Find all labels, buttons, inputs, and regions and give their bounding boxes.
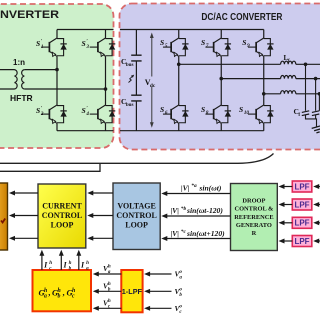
transformer HFTR 1:n xyxy=(0,70,15,89)
svg-text:S: S xyxy=(242,38,246,47)
svg-text:S: S xyxy=(36,106,40,115)
DC/DC H-bridge rails and legs xyxy=(57,30,114,131)
svg-text:o: o xyxy=(179,269,182,275)
svg-text:S: S xyxy=(201,38,205,47)
arrow Vco into 1-LPF xyxy=(149,307,171,309)
svg-text:sin(ωt): sin(ωt) xyxy=(198,183,222,192)
svg-text:LPF: LPF xyxy=(294,219,309,228)
1-LPF block xyxy=(121,270,142,312)
phase line b xyxy=(221,78,280,80)
svg-text:f: f xyxy=(298,112,300,118)
arrow LPF1 to droop xyxy=(284,186,293,188)
transistor S5 xyxy=(163,38,189,56)
svg-text:LPF: LPF xyxy=(294,200,309,209)
svg-text:a: a xyxy=(179,275,182,281)
svg-text:1: 1 xyxy=(41,44,44,50)
svg-text:a: a xyxy=(108,269,111,275)
arrow Ibh to current loop xyxy=(60,255,62,270)
svg-text:CONTROL: CONTROL xyxy=(116,211,156,220)
svg-text:sin(ωt-120): sin(ωt-120) xyxy=(186,206,223,215)
transistor S'1 xyxy=(41,38,67,56)
DC/DC converter box xyxy=(0,4,114,148)
svg-text:1-LPF: 1-LPF xyxy=(122,287,143,296)
svg-text:o: o xyxy=(179,287,182,293)
svg-text:,: , xyxy=(48,288,50,298)
svg-text:*b: *b xyxy=(181,205,187,212)
svg-text:S: S xyxy=(36,39,40,48)
transistor S7 xyxy=(205,38,231,56)
transistor S'4 xyxy=(90,105,116,123)
node: transformer bottom to right leg xyxy=(104,87,108,91)
arrow LPF2 to droop xyxy=(284,204,293,206)
svg-text:6: 6 xyxy=(165,110,168,116)
svg-text:c: c xyxy=(72,294,75,300)
svg-text:b: b xyxy=(69,266,72,272)
arrow current to PWM xyxy=(14,237,38,239)
capacitor Cbus (bottom) xyxy=(131,95,141,101)
svg-text:h: h xyxy=(86,260,89,266)
LPF block 4 xyxy=(292,236,312,247)
arrow Ich to current loop xyxy=(41,255,43,270)
arrow voltage to current xyxy=(92,192,113,194)
svg-text:LPF: LPF xyxy=(294,182,309,191)
arrow Vch to G block xyxy=(98,307,122,309)
svg-text:DC/AC CONVERTER: DC/AC CONVERTER xyxy=(201,11,282,23)
arrow Vbo into 1-LPF xyxy=(149,290,171,292)
capacitor Cf a xyxy=(302,111,309,116)
transistor S9 xyxy=(248,38,274,56)
svg-text:CURRENT: CURRENT xyxy=(42,201,82,210)
svg-text:h: h xyxy=(69,260,72,266)
arrow voltage to current xyxy=(92,237,113,239)
svg-text:|V|: |V| xyxy=(181,183,190,192)
svg-text:S: S xyxy=(239,105,243,114)
arrow current to PWM xyxy=(14,215,38,217)
svg-text:h: h xyxy=(108,298,111,304)
svg-text:CONTROL &: CONTROL & xyxy=(234,206,274,213)
svg-text:NVERTER: NVERTER xyxy=(0,9,59,21)
svg-text:*c: *c xyxy=(181,228,187,235)
current control loop block xyxy=(38,184,86,248)
DC bus rails xyxy=(120,30,264,131)
wire: output sense line xyxy=(0,154,274,164)
transistor S8 xyxy=(205,105,231,123)
filter cap branch c (clipped) xyxy=(318,92,320,96)
phase line a xyxy=(179,63,281,65)
svg-text:DROOP: DROOP xyxy=(242,198,265,205)
svg-text:8: 8 xyxy=(206,110,209,116)
arrow Vao into 1-LPF xyxy=(149,273,171,275)
svg-text:3: 3 xyxy=(85,44,89,50)
DC/AC leg xyxy=(220,30,222,131)
svg-text:h: h xyxy=(108,281,111,287)
svg-text:GENERATO: GENERATO xyxy=(236,222,272,229)
DC/AC converter box xyxy=(120,4,320,150)
filter cap branch b xyxy=(314,77,318,81)
svg-text:dc: dc xyxy=(150,83,156,89)
svg-text:*a: *a xyxy=(191,182,197,189)
svg-text:b: b xyxy=(57,294,60,300)
transistor S'3 xyxy=(90,38,116,56)
voltage control loop block xyxy=(113,183,160,250)
LPF block 2 xyxy=(292,199,312,210)
svg-text:a: a xyxy=(44,294,47,300)
svg-text:sin(ωt+120): sin(ωt+120) xyxy=(186,229,225,238)
inductor Lf phase b xyxy=(281,76,296,79)
arrow Vah to G block xyxy=(98,273,122,275)
phase line c xyxy=(264,93,281,95)
svg-text:bus: bus xyxy=(126,62,134,68)
neutral wire xyxy=(306,115,317,127)
arrow reference a xyxy=(166,193,230,195)
arrow Iah to current loop xyxy=(78,255,80,270)
arrow voltage to current xyxy=(92,215,113,217)
LPF block 3 xyxy=(292,217,312,228)
svg-text:h: h xyxy=(57,288,60,294)
arrow LPF3 to droop xyxy=(284,222,293,224)
node: transformer top to left leg xyxy=(55,68,59,72)
svg-text:S: S xyxy=(201,105,205,114)
svg-text:h: h xyxy=(49,260,52,266)
svg-text:2: 2 xyxy=(40,111,44,117)
svg-text:a: a xyxy=(86,266,89,272)
DC link midpoint squiggle xyxy=(129,76,134,83)
svg-text:CONTROL: CONTROL xyxy=(42,211,82,220)
capacitor Cf b xyxy=(312,111,319,116)
svg-text:10: 10 xyxy=(244,110,250,116)
svg-text:R: R xyxy=(252,230,257,237)
harmonic conductance block Ga Gb Gc xyxy=(33,270,92,311)
svg-text:h: h xyxy=(72,288,75,294)
svg-text:LPF: LPF xyxy=(294,237,309,246)
svg-text:|V|: |V| xyxy=(171,206,180,215)
transistor S10 xyxy=(248,105,274,123)
arrow reference b xyxy=(166,215,230,217)
svg-text:h: h xyxy=(108,264,111,270)
svg-text:h: h xyxy=(44,288,47,294)
inductor Lf phase c xyxy=(281,91,296,94)
wire: sense branch xyxy=(0,163,100,171)
svg-text:S: S xyxy=(82,39,86,48)
LPF block 1 xyxy=(292,181,312,192)
svg-text:|V|: |V| xyxy=(171,229,180,238)
arrow LPF4 to droop xyxy=(284,240,293,242)
svg-text:bus: bus xyxy=(126,102,134,108)
svg-text:S: S xyxy=(82,106,86,115)
arrow input to LPF1 xyxy=(318,186,320,188)
droop control block xyxy=(231,184,278,251)
arrow Vbh to G block xyxy=(98,290,122,292)
svg-text:5: 5 xyxy=(165,43,168,49)
PWM block (cut off) xyxy=(0,183,8,250)
transistor S6 xyxy=(163,105,189,123)
svg-text:VOLTAGE: VOLTAGE xyxy=(117,201,156,210)
arrow current to PWM xyxy=(14,192,38,194)
DC link vertical xyxy=(135,30,137,131)
DC/AC leg xyxy=(263,30,265,131)
transistor S'2 xyxy=(41,105,67,123)
svg-text:o: o xyxy=(179,304,182,310)
arrow input to LPF2 xyxy=(318,204,320,206)
svg-text:LOOP: LOOP xyxy=(51,221,74,230)
arrow input to LPF3 xyxy=(318,222,320,224)
svg-text:,: , xyxy=(63,288,65,298)
Vdc measurement arrow xyxy=(151,37,153,124)
capacitor Cbus (top) xyxy=(131,55,141,61)
svg-text:b: b xyxy=(108,286,111,292)
svg-text:REFERENCE: REFERENCE xyxy=(234,214,273,221)
svg-text:LOOP: LOOP xyxy=(125,221,148,230)
svg-text:1:n: 1:n xyxy=(13,58,25,67)
svg-text:S: S xyxy=(160,105,164,114)
inductor Lf phase a xyxy=(281,61,296,64)
DC/AC leg xyxy=(178,30,180,131)
svg-text:4: 4 xyxy=(85,111,89,117)
arrow reference c xyxy=(166,238,230,240)
ground xyxy=(312,126,320,134)
arrow input to LPF4 xyxy=(318,240,320,242)
svg-text:b: b xyxy=(179,292,182,298)
svg-text:9: 9 xyxy=(247,43,250,49)
filter cap branch a xyxy=(304,63,308,67)
svg-text:S: S xyxy=(160,38,164,47)
svg-text:HFTR: HFTR xyxy=(10,93,33,103)
svg-text:7: 7 xyxy=(206,43,209,49)
